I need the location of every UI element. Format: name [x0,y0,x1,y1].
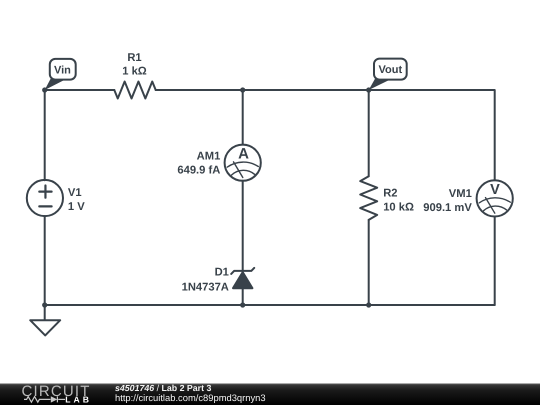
node label Vout [369,59,407,90]
node dot D1 bottom [240,302,245,307]
svg-text:649.9 fA: 649.9 fA [177,165,220,177]
svg-text:V: V [490,182,500,198]
wire: R2 to bottom wire [368,220,370,305]
svg-text:VM1: VM1 [449,188,472,200]
wire left: Vin node down to V1 [44,90,46,180]
resistor R2 [360,176,377,220]
footer bar [0,384,540,405]
node dot Vout [366,87,371,92]
svg-text:1 kΩ: 1 kΩ [122,66,147,78]
svg-text:10 kΩ: 10 kΩ [383,202,414,214]
wire AM1 branch: top node down to ammeter [242,90,244,145]
svg-text:D1: D1 [215,267,229,279]
wire top: R1 to Vout node [156,89,369,91]
CircuitLab logo [22,383,91,404]
svg-text:909.1 mV: 909.1 mV [423,202,472,214]
svg-text:Vin: Vin [54,64,71,76]
resistor R1 [114,82,155,99]
wire top: Vout node to top-right corner [369,90,495,180]
op: ammeter AM1 [225,145,261,181]
svg-text:http://circuitlab.com/c89pmd3q: http://circuitlab.com/c89pmd3qrnyn3 [115,392,266,403]
svg-text:A: A [238,145,249,162]
svg-text:1 V: 1 V [68,201,85,213]
svg-text:1N4737A: 1N4737A [182,282,229,294]
svg-text:AM1: AM1 [197,151,221,163]
node label Vin [45,59,76,90]
svg-text:LAB: LAB [65,394,90,404]
diode D1 (zener) [231,268,254,288]
wire left: V1 down to bottom-left node [44,216,46,305]
node dot R2 bottom [366,302,371,307]
svg-text:Vout: Vout [378,64,402,76]
svg-text:V1: V1 [68,187,82,199]
wire: voltmeter to bottom-right corner [494,217,496,306]
wire: ammeter to D1 [242,181,244,271]
voltage source V1 [27,180,63,216]
node dot Vin [42,87,47,92]
footer text [115,383,266,403]
svg-text:R1: R1 [127,52,141,64]
wire R2 branch: Vout node down to R2 [368,90,370,176]
node dot AM1 top [240,87,245,92]
node dot bottom left [42,302,47,307]
wire ground stub [44,305,46,320]
wire bottom [45,304,495,306]
wire top: Vin node to R1 [45,89,115,91]
svg-text:R2: R2 [383,187,397,199]
wire: D1 to bottom wire [242,288,244,305]
voltmeter VM1 [477,180,513,216]
ground [30,320,60,335]
